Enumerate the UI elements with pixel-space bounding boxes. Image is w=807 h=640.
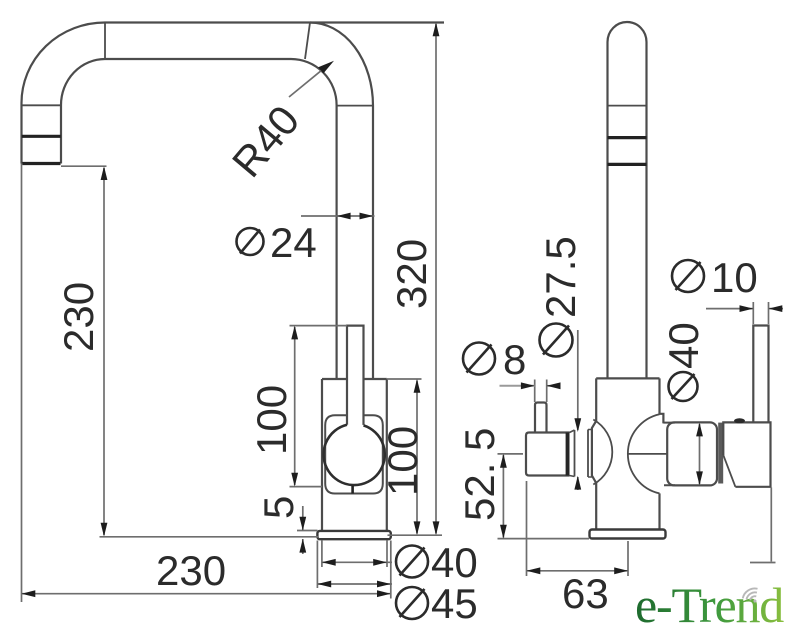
side view: dim dia8 left arrow	[521, 382, 535, 389]
side view: joint ring line 2	[587, 430, 589, 478]
front view: dim dia40 right arrow	[373, 559, 387, 566]
front view: dim 100 left top arrow	[291, 326, 298, 340]
front view: dim 100 left bottom extension	[290, 486, 323, 488]
side view: spout ring line 1 (thick)	[608, 136, 647, 139]
front view: dim 100 right top arrow	[414, 379, 421, 393]
side view: cartridge intersection arc	[628, 414, 660, 493]
side view: dim 52.5 bottom arrow	[500, 525, 507, 539]
front view: dim 320 top arrow	[433, 23, 440, 37]
front view: dim 5 lower arrow	[299, 539, 306, 553]
side view: dim dia40 bottom arrow	[696, 471, 703, 485]
side view: joint ring top edge	[570, 430, 592, 433]
front view: spout tangent tick right top	[305, 23, 310, 60]
front view: dim 100 right top extension	[387, 378, 422, 380]
side view: dim 63 left arrow	[527, 567, 541, 574]
side view: handle rod	[753, 326, 768, 423]
side view: spout joint line	[608, 105, 647, 107]
svg-text:24: 24	[270, 219, 317, 266]
front view: spout inner contour	[61, 59, 337, 379]
side view: inlet block	[526, 433, 570, 476]
front view: handle rod	[347, 326, 364, 425]
side view: handle base outline	[723, 422, 770, 486]
side view: dim dia10 line right	[769, 308, 784, 310]
front view: dim dia45 left extension	[316, 541, 318, 589]
front view: dim 100 right line	[416, 381, 418, 534]
front view: spout tangent tick right side	[337, 105, 374, 107]
front view: dim 24 line	[301, 215, 375, 217]
front view: dim 320 line	[435, 24, 437, 534]
front view: dim 100 right bottom arrow	[414, 521, 421, 535]
front view: spout tangent tick left	[104, 23, 106, 60]
svg-text:100: 100	[248, 385, 295, 455]
side view: body right edge upper	[660, 378, 664, 423]
front view: left extension line down	[21, 164, 23, 603]
side view: dim dia8 line left	[500, 385, 535, 387]
front view: dim dia40 left arrow	[322, 559, 336, 566]
front view: dia symbol 40	[396, 546, 428, 578]
side view: tick below handle base	[750, 562, 776, 564]
side view: dia27.5 leader lower arrow	[574, 476, 581, 490]
side view: dim 63 left extension	[526, 481, 528, 576]
svg-text:230: 230	[55, 282, 102, 352]
front view: dia symbol 45	[396, 587, 428, 619]
front view: dim 320 bottom extension	[388, 534, 443, 536]
side view: dim dia8 left extension	[534, 380, 536, 403]
front view: spout outer contour	[22, 23, 445, 380]
side view: dia symbol 40 rotated	[669, 372, 698, 401]
side view: dim 52.5 top arrow	[500, 454, 507, 468]
side view: dia symbol 8	[463, 343, 495, 375]
front view: dim dia40 right extension	[386, 541, 388, 568]
front view: dim dia40 line	[322, 561, 392, 563]
side view: dim dia40 top arrow	[696, 423, 703, 437]
front view: dim 230 horizontal right arrow	[377, 590, 391, 597]
front view: base flange	[317, 531, 390, 539]
side view: inlet block dark ring band	[566, 433, 570, 476]
side view: nipple	[535, 403, 547, 433]
front view: dim dia45 line	[317, 583, 392, 585]
side view: dim 63 right extension	[627, 541, 629, 576]
svg-text:10: 10	[711, 254, 758, 301]
front view: dim 230 horizontal left arrow	[22, 590, 36, 597]
side view: body right edge lower	[658, 493, 660, 529]
front view: tick below valve circle	[351, 486, 354, 494]
side view: body left edge	[592, 378, 596, 529]
front view: dim dia45 right arrow	[377, 581, 391, 588]
side view: dim dia10 left arrow	[740, 305, 754, 312]
side view: dia symbol 27.5	[540, 324, 573, 357]
side view: dim dia8 line right	[547, 385, 560, 387]
front view: dim dia40 left extension	[321, 541, 323, 568]
svg-text:5: 5	[255, 496, 302, 519]
front view: valve housing rounded square	[325, 415, 383, 493]
front view: outlet ring line (thick)	[22, 135, 61, 138]
side view: joint ring bottom edge	[570, 476, 592, 478]
front view: dim 24 left arrow	[337, 213, 351, 220]
side view: dim dia10 line left	[706, 308, 753, 310]
svg-text:R40: R40	[223, 97, 309, 186]
front view: dim 230 horizontal line	[22, 593, 391, 595]
front view: mounting plane extension line	[100, 536, 319, 538]
front view: dim 24 right arrow	[360, 213, 374, 220]
svg-text:40: 40	[431, 539, 478, 586]
svg-text:230: 230	[156, 547, 226, 594]
side view: dia27.5 leader upper	[577, 330, 579, 430]
side view: dim dia40 line	[699, 424, 701, 484]
front view: dim 230 vertical line	[103, 168, 105, 535]
svg-text:e-Trend: e-Trend	[635, 577, 784, 633]
front view: dia symbol 24	[237, 228, 264, 255]
side view: cartridge centerline	[628, 453, 668, 455]
side view: handle base chamfer edge	[723, 455, 735, 487]
side view: extension line below handle base	[770, 488, 772, 562]
front view: dim 100 left bottom arrow	[291, 473, 298, 487]
front view: dim 230 vertical top arrow	[101, 166, 108, 180]
svg-text:100: 100	[379, 426, 426, 496]
side view: dim 52.5 top extension	[498, 453, 524, 455]
front view: body outline	[322, 379, 387, 531]
logo: wifi mark	[741, 586, 763, 607]
side view: spout ring line 2 (thick)	[608, 163, 647, 166]
front view: dim 100 left line	[294, 327, 296, 485]
side view: dim 63 line	[527, 570, 629, 572]
side view: dark notch on handle base top	[734, 418, 745, 423]
front view: valve circle	[324, 425, 385, 485]
side view: ring band between housing and handle base	[718, 423, 723, 484]
side view: cartridge housing top/bottom joins	[663, 423, 675, 486]
side view: dim dia8 right extension	[546, 380, 548, 403]
front view: dim 230 vertical extension line top	[61, 165, 107, 167]
front view: dim 100 left top extension	[290, 325, 348, 327]
side view: dia symbol 10	[672, 260, 704, 292]
front view: dim 5 flange top extension	[297, 530, 318, 532]
side view: dim 52.5 bottom extension	[498, 538, 590, 540]
side view: dim dia8 right arrow	[547, 382, 561, 389]
side view: cartridge housing rounded rect	[667, 422, 717, 485]
side view: dim dia10 right arrow	[769, 305, 783, 312]
side view: dia27.5 leader upper arrow	[574, 418, 581, 432]
front view: dim 5 line upper	[302, 506, 304, 531]
front view: outlet bottom cap (thick)	[22, 162, 60, 165]
side view: base flange	[590, 530, 666, 539]
svg-text:45: 45	[431, 580, 478, 627]
side view: dim dia10 left extension	[752, 302, 754, 324]
side view: dia27.5 leader lower	[577, 477, 579, 490]
side view: joint ring line 1	[574, 430, 576, 477]
front view: R40 leader arrow	[318, 61, 334, 74]
side view: dim 52.5 line	[502, 455, 504, 538]
front view: dim 230 vertical bottom arrow	[101, 523, 108, 537]
front view: dim 5 line lower	[302, 539, 304, 554]
side view: dim dia10 right extension	[768, 302, 770, 324]
svg-text:52. 5: 52. 5	[456, 428, 503, 521]
front view: dim dia45 left arrow	[317, 581, 331, 588]
svg-text:8: 8	[503, 336, 526, 383]
front view: dim dia45 right extension	[390, 541, 392, 599]
side view: dim 63 right arrow	[614, 567, 628, 574]
front view: R40 leader line	[289, 67, 326, 97]
front view: dim 5 upper arrow	[299, 517, 306, 531]
side view: body shoulder	[596, 377, 659, 379]
svg-text:320: 320	[388, 239, 435, 309]
front view: outlet joint line	[22, 104, 62, 106]
front view: dim 320 bottom arrow	[433, 521, 440, 535]
svg-text:27.5: 27.5	[537, 236, 584, 318]
svg-text:40: 40	[660, 322, 707, 369]
svg-text:63: 63	[562, 570, 609, 617]
side view: spout pipe outline with dome top	[608, 22, 647, 378]
side view: block intersection arc	[593, 420, 612, 485]
